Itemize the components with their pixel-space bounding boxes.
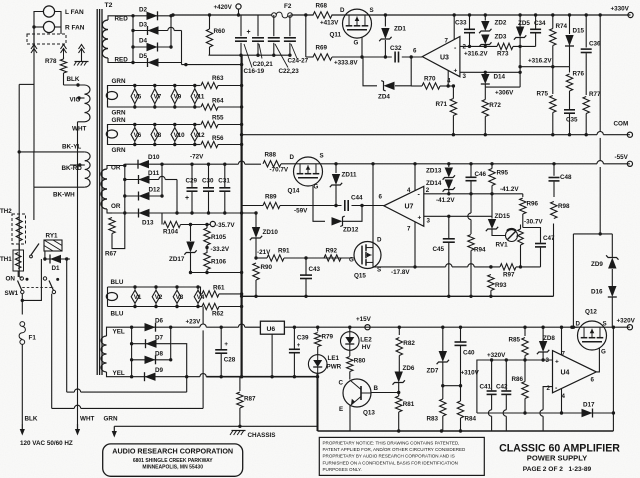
- terminal COM: [627, 132, 632, 137]
- svg-text:R79: R79: [322, 334, 334, 341]
- wire D1 row down: [66, 259, 68, 392]
- resistor R80: [347, 357, 366, 372]
- svg-text:V10: V10: [174, 132, 186, 139]
- resistor R86: [512, 376, 529, 399]
- svg-text:+: +: [418, 215, 422, 222]
- wire D13 row: [125, 212, 177, 214]
- svg-text:V3: V3: [176, 294, 184, 301]
- svg-text:ZD6: ZD6: [403, 365, 415, 372]
- wire switch return run: [52, 407, 75, 409]
- svg-text:R90: R90: [261, 264, 273, 271]
- wire D6 row: [132, 326, 171, 328]
- wire +306V line: [485, 86, 520, 88]
- resistor R104: [164, 221, 181, 227]
- svg-text:ZD9: ZD9: [591, 261, 603, 268]
- svg-text:+: +: [185, 195, 189, 202]
- fan L FAN: [43, 6, 84, 17]
- wire D14 bottom lead: [484, 85, 486, 88]
- svg-text:COM: COM: [614, 121, 629, 128]
- svg-text:ZD14: ZD14: [426, 180, 442, 187]
- wire ZD17 top lead: [190, 225, 192, 242]
- wire ZD1 top lead: [384, 15, 386, 27]
- wire D17 line: [477, 412, 614, 414]
- svg-text:D14: D14: [494, 74, 506, 81]
- switch linkage dashed: [22, 287, 54, 289]
- junction dot Q13 base node: [397, 391, 400, 394]
- svg-text:GRN: GRN: [112, 78, 126, 85]
- wire U3 pin3 line: [460, 71, 520, 73]
- svg-text:T2: T2: [105, 2, 113, 9]
- capacitor C47: [535, 244, 546, 247]
- wire base node to R81: [398, 393, 400, 397]
- svg-text:C34: C34: [534, 20, 546, 27]
- svg-text:GRN: GRN: [112, 117, 126, 124]
- label ZD6: [403, 365, 415, 372]
- net -72V label: [190, 154, 204, 161]
- wire D3 row b: [174, 30, 181, 32]
- wire +15V rail: [284, 326, 577, 328]
- net +316.2V label left: [464, 51, 488, 58]
- svg-text:U4: U4: [561, 370, 570, 377]
- svg-text:R56: R56: [212, 135, 224, 142]
- transformer T2 OR winding: [101, 169, 107, 209]
- wire OR bottom lead: [107, 209, 125, 213]
- wire Q13 base to ZD6 node: [371, 392, 399, 394]
- svg-text:C48: C48: [560, 174, 572, 181]
- resistor R77: [583, 91, 601, 114]
- label C43: [309, 266, 321, 273]
- wire R68/R69 left join: [305, 15, 307, 57]
- svg-text:ZD5: ZD5: [518, 20, 530, 27]
- wire R89 to C44: [280, 205, 342, 207]
- wire D8 row: [132, 359, 171, 361]
- wire WHT lead arrow: [75, 424, 80, 436]
- wire R94 bottom: [470, 251, 472, 297]
- net OR label bottom: [111, 203, 121, 210]
- wire C33 bottom lead: [469, 34, 471, 47]
- svg-text:R98: R98: [558, 203, 570, 210]
- thermistor TH1: [0, 250, 24, 271]
- wire main return bus vertical: [241, 55, 243, 377]
- junction dot ZD10 top: [254, 211, 257, 214]
- svg-text:D: D: [576, 321, 581, 328]
- svg-text:+333.8V: +333.8V: [334, 60, 358, 67]
- svg-text:3: 3: [546, 357, 550, 364]
- svg-text:+320V: +320V: [617, 318, 636, 325]
- wire YEL bottom lead: [107, 372, 132, 377]
- earth ground: [74, 62, 89, 66]
- svg-text:V2: V2: [155, 294, 163, 301]
- label ZD3: [495, 34, 507, 41]
- capacitor C46: [466, 177, 477, 180]
- voltage regulator U6: [260, 321, 284, 334]
- svg-text:C24-27: C24-27: [288, 58, 309, 65]
- wire ZD1 bottom lead: [384, 40, 386, 57]
- wire R63 to bus: [218, 85, 242, 87]
- resistor R68: [313, 3, 332, 19]
- resistor R67: [109, 218, 115, 234]
- svg-text:C39: C39: [297, 335, 309, 342]
- junction dots -17.8V row: [413, 265, 522, 268]
- svg-text:E: E: [339, 406, 343, 413]
- wire C41 bottom lead: [491, 395, 493, 410]
- junction dots block bottom rail: [240, 295, 493, 298]
- wire ZD13 top lead: [448, 164, 450, 167]
- switch SW1 label: [5, 290, 19, 297]
- label C36: [589, 41, 601, 48]
- net VIO label: [70, 97, 81, 104]
- wire ZD14 bottom lead: [448, 190, 450, 194]
- net WHT label T1: [72, 126, 86, 133]
- svg-text:R77: R77: [589, 91, 601, 98]
- terminal +320V: [627, 325, 632, 330]
- op-amp U7: [379, 186, 431, 232]
- svg-text:GRN: GRN: [104, 416, 118, 423]
- svg-text:R97: R97: [503, 272, 515, 279]
- capacitor bank C20,21: [252, 38, 264, 41]
- wire R79 top lead: [317, 327, 319, 331]
- wire R96 to C47: [523, 228, 541, 243]
- junction dot R91/C43: [304, 256, 307, 259]
- capacitor C34: [530, 29, 541, 32]
- label ZD7: [427, 368, 439, 375]
- svg-text:BK-WH: BK-WH: [53, 192, 75, 199]
- capacitor C43: [300, 275, 312, 278]
- wire GRN1 bottom lead: [108, 101, 195, 107]
- wire VIO tap: [78, 97, 85, 99]
- junction dots +320V line: [490, 358, 545, 361]
- wire C41 to bottom line: [491, 416, 493, 431]
- wire filter cap 2 top lead: [257, 15, 259, 36]
- wire +330V feed down segment1: [599, 15, 601, 132]
- svg-text:C46: C46: [475, 171, 487, 178]
- wire hop row over C45 col: [446, 264, 452, 267]
- svg-text:V12: V12: [194, 132, 206, 139]
- wire C43 bottom lead: [305, 279, 307, 296]
- svg-text:PROPRIETARY BY AUDIO RESEARCH: PROPRIETARY BY AUDIO RESEARCH CORPORATIO…: [323, 454, 455, 459]
- resistor R72: [482, 100, 501, 117]
- wire hop pin2 over D17 line: [540, 410, 543, 416]
- wire ZD5 node down: [519, 46, 521, 87]
- wire hop C46 col over pin3 line: [468, 213, 471, 219]
- svg-text:-17.8V: -17.8V: [391, 269, 410, 276]
- wire R67 return loop: [112, 213, 125, 249]
- label C42: [496, 384, 508, 391]
- wire capacitor bank bottom bus: [209, 54, 290, 56]
- wire C48/R98 column bottom: [553, 224, 555, 297]
- wire C31 top lead: [224, 164, 226, 188]
- net GRN label 1a: [112, 78, 126, 85]
- net -41.2V label right: [500, 186, 519, 193]
- wire TH2 to TH1: [18, 244, 20, 250]
- svg-text:FURNISHED ON A CONFIDENTIAL BA: FURNISHED ON A CONFIDENTIAL BASIS FOR ID…: [323, 460, 458, 465]
- net CHASSIS label: [248, 432, 276, 439]
- wire C39 top lead: [293, 327, 295, 349]
- wire OR top lead: [107, 166, 125, 170]
- capacitor C44: [345, 200, 348, 211]
- transformer T2 core: [97, 2, 112, 375]
- junction dot COM at bus: [240, 133, 243, 136]
- wire +23V rail 3: [245, 326, 261, 328]
- wire -72V rail to R88: [245, 163, 261, 165]
- wire +420V rail R68 through Q11 to terminal: [332, 14, 631, 16]
- wire C40 bottom lead: [460, 346, 462, 386]
- zener ZD15: [486, 219, 498, 231]
- svg-text:R64: R64: [212, 98, 224, 105]
- wire TH1 to switch: [19, 276, 22, 278]
- svg-text:ZD13: ZD13: [426, 168, 442, 175]
- svg-text:4: 4: [562, 393, 566, 400]
- wire hop +23V return over drop: [200, 374, 206, 377]
- label ZD9: [591, 261, 603, 268]
- wire C35 bottom lead: [569, 114, 571, 135]
- net +316.2V label right: [528, 58, 552, 65]
- wire U6 ground pin: [271, 334, 273, 377]
- wire R86 top lead: [524, 360, 526, 382]
- zener ZD10: [250, 227, 262, 240]
- junction dot BK-YL: [18, 150, 21, 153]
- junction dots D10/D12: [160, 163, 163, 198]
- wire ZD17/R106 bottom join: [191, 272, 242, 274]
- wire WHT drop: [77, 122, 79, 431]
- svg-text:D8: D8: [155, 351, 164, 358]
- wire R74 bottom lead: [552, 46, 554, 67]
- svg-text:C: C: [339, 380, 344, 387]
- capacitor bank C16-19: [235, 38, 247, 41]
- capacitor C33: [464, 29, 475, 32]
- wire U3 pin2 line: [460, 45, 497, 47]
- svg-text:ZD2: ZD2: [495, 20, 507, 27]
- resistor R60: [206, 28, 225, 47]
- wire R64 to bus: [218, 106, 242, 108]
- wire R72 bottom lead: [484, 117, 486, 135]
- wire R79 to LE1: [317, 347, 319, 355]
- MOSFET Q14: [288, 153, 324, 195]
- svg-text:-59V: -59V: [294, 208, 308, 215]
- svg-text:G: G: [354, 40, 359, 47]
- wire ZD11 bottom lead: [335, 186, 337, 206]
- svg-text:R73: R73: [497, 51, 509, 58]
- svg-text:3: 3: [427, 218, 431, 225]
- svg-text:R87: R87: [244, 396, 256, 403]
- wire R75 bottom lead: [552, 113, 554, 135]
- svg-text:R71: R71: [436, 101, 448, 108]
- svg-text:D: D: [377, 237, 382, 244]
- wire SW1 node right: [22, 259, 41, 300]
- junction dots pin2 line U7: [447, 192, 494, 195]
- tube heater V3: [173, 285, 184, 308]
- transistor Q13: [339, 379, 379, 417]
- wire BK-RD tap: [70, 164, 85, 166]
- wire -41.2V ext: [492, 193, 523, 195]
- svg-text:R92: R92: [326, 248, 338, 255]
- svg-text:ZD11: ZD11: [342, 172, 358, 179]
- wire R60 top lead: [209, 15, 211, 29]
- wire GRN2 top lead: [108, 125, 195, 129]
- svg-text:C20,21: C20,21: [253, 61, 274, 68]
- wire C48 top lead: [553, 164, 555, 176]
- svg-text:-55V: -55V: [615, 154, 629, 161]
- node +420V label: [214, 4, 233, 11]
- label ZD10: [263, 229, 279, 236]
- wire filter cap 4 bottom lead: [289, 43, 291, 55]
- svg-text:BLK: BLK: [25, 416, 38, 423]
- label ZD11: [342, 172, 358, 179]
- wire C45 top lead: [448, 216, 450, 238]
- title POWER SUPPLY: [527, 454, 587, 463]
- diode D5: [139, 53, 159, 67]
- wire R87 top lead: [239, 377, 241, 391]
- capacitor C30: [203, 188, 214, 191]
- svg-text:PAGE 2 OF 2 1-23-89: PAGE 2 OF 2 1-23-89: [523, 466, 592, 473]
- label C45: [433, 246, 445, 253]
- resistor R73: [497, 43, 513, 49]
- wire C30 top lead: [208, 164, 210, 188]
- svg-text:R75: R75: [537, 91, 549, 98]
- svg-text:6: 6: [413, 48, 417, 55]
- svg-text:ZD1: ZD1: [394, 26, 406, 33]
- wire U7 pin4: [414, 164, 416, 191]
- capacitor C39: [289, 349, 300, 352]
- svg-text:WHT: WHT: [72, 126, 86, 133]
- svg-text:ZD8: ZD8: [543, 335, 555, 342]
- svg-text:Q13: Q13: [363, 410, 375, 417]
- junction dot Q15 D rail: [371, 162, 374, 165]
- wire D13 bus to R104: [161, 213, 163, 225]
- junction dot -21V: [254, 256, 257, 259]
- junction dot C28 top: [220, 326, 223, 329]
- svg-text:YEL: YEL: [113, 370, 125, 377]
- label C39: [297, 335, 309, 350]
- svg-text:D: D: [340, 7, 345, 14]
- wire ZD17 bottom lead: [190, 253, 192, 273]
- label C46: [475, 171, 487, 178]
- net BK-WH label: [53, 192, 75, 199]
- wire R106 bottom lead: [206, 270, 208, 273]
- wire T1 upper bottom: [78, 121, 85, 123]
- svg-text:OR: OR: [111, 165, 121, 172]
- wire ZD7 to +310 line: [442, 363, 444, 386]
- svg-text:+320V: +320V: [487, 352, 506, 359]
- svg-text:R80: R80: [354, 358, 366, 365]
- resistor R70: [422, 76, 440, 90]
- wire BK-YL row: [19, 151, 85, 153]
- svg-text:R70: R70: [424, 76, 436, 83]
- wire U3 pin2 line b: [513, 45, 536, 47]
- junction dot D14 top: [484, 71, 487, 74]
- svg-text:ZD7: ZD7: [427, 368, 439, 375]
- svg-text:-30.7V: -30.7V: [524, 219, 543, 226]
- svg-text:ZD15: ZD15: [495, 213, 511, 220]
- wire R95 node to ZD15: [491, 194, 493, 219]
- wire rectifier return bus: [182, 64, 242, 66]
- svg-text:R55: R55: [212, 115, 224, 122]
- terminal +15V test point: [365, 325, 370, 330]
- svg-text:+316.2V: +316.2V: [464, 51, 488, 58]
- label ZD14: [426, 180, 442, 187]
- switch SW1 pole 2: [43, 277, 59, 294]
- svg-text:Q12: Q12: [585, 309, 597, 316]
- svg-text:+15V: +15V: [356, 316, 372, 323]
- wire D5 row: [133, 62, 182, 64]
- svg-text:ZD3: ZD3: [495, 34, 507, 41]
- capacitor C45: [443, 239, 455, 242]
- net +320V label right: [617, 318, 636, 325]
- svg-text:R82: R82: [403, 340, 415, 347]
- wire R75 top lead: [552, 67, 554, 94]
- op-amp U3: [422, 37, 466, 85]
- svg-text:R86: R86: [512, 376, 524, 383]
- junction dots return bus: [220, 375, 320, 378]
- resistor R85: [509, 337, 529, 356]
- net OR label top: [111, 165, 121, 172]
- wire D4 row: [133, 46, 171, 48]
- label ZD2: [495, 20, 507, 27]
- label C30: [202, 178, 214, 185]
- wire heater return run b: [81, 391, 187, 393]
- svg-text:V6: V6: [134, 132, 142, 139]
- junction dot -33.2V: [205, 246, 208, 249]
- wire +330V feed down segment3: [599, 167, 601, 234]
- resistor R97: [500, 264, 516, 270]
- wire -55V rail: [320, 163, 597, 165]
- relay RY1: [44, 233, 62, 252]
- wire ZD10 column top: [255, 213, 257, 227]
- wire fan right join: [55, 12, 61, 35]
- net -70.7V label: [270, 167, 289, 174]
- net GRN label 1b: [112, 110, 126, 117]
- wire R105 top lead: [206, 225, 208, 229]
- svg-text:R104: R104: [163, 229, 179, 236]
- net +23V label: [186, 319, 202, 326]
- svg-text:C33: C33: [455, 20, 467, 27]
- net BLU label top: [111, 279, 124, 286]
- wire -55V rail right: [603, 163, 630, 165]
- wire R81 bottom lead: [398, 412, 400, 431]
- diode D3: [139, 22, 159, 36]
- surge arrester arrow 3: [79, 45, 85, 58]
- wire ZD5 top lead: [519, 15, 521, 27]
- wire U7 pin3 line: [424, 215, 492, 217]
- capacitor bank C24-27: [284, 38, 296, 41]
- label C33: [455, 20, 467, 27]
- wire ZD4 row to R70: [411, 85, 422, 87]
- wire D3 row: [133, 30, 168, 32]
- relay RY1 contact: [30, 244, 39, 258]
- svg-text:G: G: [314, 184, 319, 191]
- diode D10: [138, 154, 160, 169]
- svg-text:RED: RED: [115, 57, 129, 64]
- wire D10/D12 cathode join: [161, 164, 163, 196]
- net BLK label bottom: [25, 416, 38, 423]
- wire BK-WH drop: [33, 187, 35, 220]
- wire R82 to ZD6: [398, 356, 400, 372]
- svg-text:+413V: +413V: [320, 20, 339, 27]
- wire U7 block bottom rail: [242, 295, 554, 297]
- wire R80 to Q13 collector: [349, 372, 351, 380]
- wire GRN2 bottom lead: [108, 140, 195, 145]
- wire R86 bottom lead: [524, 399, 526, 414]
- resistor R87: [237, 392, 256, 408]
- wire YEL diode anode bus: [131, 327, 133, 377]
- svg-text:C40: C40: [463, 350, 475, 357]
- wire U4 pin4: [561, 388, 563, 413]
- wire R105 to R106: [206, 245, 208, 253]
- dashed connector box: [27, 34, 66, 44]
- svg-text:+23V: +23V: [186, 319, 202, 326]
- svg-text:D3: D3: [139, 22, 148, 29]
- zener ZD2: [479, 21, 491, 33]
